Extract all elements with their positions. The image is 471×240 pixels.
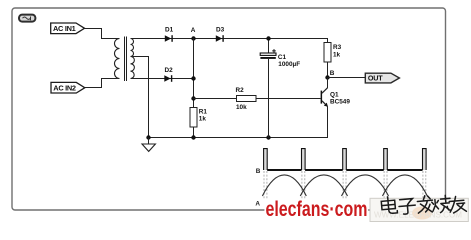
- resistor R3: [324, 43, 342, 63]
- svg-text:10k: 10k: [236, 104, 247, 111]
- diode D3: [216, 27, 225, 42]
- transistor Q1: [321, 78, 351, 107]
- resistor R2: [236, 87, 257, 111]
- logo badge top-left: [19, 15, 35, 22]
- resistor R1: [190, 108, 207, 128]
- waveform A rectified sine humps: [262, 175, 427, 196]
- svg-text:1k: 1k: [333, 51, 341, 58]
- wire node A down to R1: [193, 39, 195, 108]
- wire secondary center tap to ground column: [131, 57, 149, 138]
- wire bottom rail: [149, 107, 328, 138]
- wire R3 bottom to node B: [327, 62, 329, 78]
- svg-text:R3: R3: [333, 44, 342, 51]
- svg-text:D2: D2: [165, 67, 174, 74]
- svg-text:R1: R1: [199, 108, 208, 115]
- junction dot ground: [146, 135, 150, 139]
- svg-text:BC549: BC549: [330, 99, 350, 106]
- wire node B to OUT tag: [328, 77, 366, 79]
- wire AC IN1 to transformer primary top: [85, 29, 120, 39]
- watermark chinese 发: [417, 195, 434, 213]
- svg-text:R2: R2: [236, 87, 245, 94]
- tag OUT: [365, 73, 399, 83]
- waveform plot labels: [255, 168, 260, 208]
- svg-text:B: B: [256, 168, 261, 175]
- svg-text:OUT: OUT: [368, 74, 383, 83]
- svg-text:AC IN1: AC IN1: [53, 24, 76, 33]
- waveform B level line: [267, 169, 422, 171]
- wire secondary bottom to D2 and node A column: [131, 78, 194, 80]
- svg-text:A: A: [191, 27, 196, 34]
- svg-text:1000µF: 1000µF: [278, 61, 300, 68]
- ground: [142, 138, 155, 152]
- wire AC IN2 to transformer primary bottom: [85, 79, 120, 88]
- diode D2: [164, 67, 173, 82]
- watermark chinese 子: [398, 198, 415, 214]
- wire top rail secondary to R3: [131, 39, 328, 43]
- diode D1: [165, 27, 174, 42]
- watermark box bottom right: [370, 198, 468, 221]
- waveform B trace pulses: [264, 149, 427, 170]
- transformer T1 secondary winding: [131, 39, 135, 79]
- junction dot C1 top: [266, 36, 270, 40]
- tag AC IN1: [51, 23, 85, 34]
- svg-text:WWW.ELECFANS.COM: WWW.ELECFANS.COM: [374, 210, 462, 220]
- svg-text:elecfans·com: elecfans·com: [266, 198, 368, 221]
- watermark red elecfans.com: [266, 198, 368, 221]
- svg-text:B: B: [330, 70, 335, 77]
- node B junction dot: [325, 75, 329, 79]
- svg-text:1k: 1k: [199, 116, 207, 123]
- junction dot R2 row: [191, 96, 195, 100]
- wire R2 row from node A column to Q1 base: [194, 98, 321, 100]
- watermark chinese 友: [449, 196, 467, 214]
- waveform hatched zero-cross bands: [264, 171, 426, 199]
- junction dot R1 bottom: [191, 135, 195, 139]
- transformer T1 core: [125, 37, 127, 82]
- svg-text:AC IN2: AC IN2: [53, 84, 76, 93]
- watermark chinese 烧: [431, 195, 451, 213]
- svg-text:D3: D3: [216, 27, 225, 34]
- junction dot D2 row: [191, 76, 195, 80]
- svg-text:D1: D1: [165, 27, 174, 34]
- svg-text:A: A: [255, 201, 260, 208]
- svg-text:Q1: Q1: [330, 92, 339, 99]
- wire R1 bottom to rail: [193, 127, 195, 138]
- schematic frame border: [12, 8, 446, 210]
- node A junction dot: [191, 36, 195, 40]
- svg-text:C1: C1: [278, 54, 287, 61]
- tag AC IN2: [51, 82, 85, 93]
- capacitor C1: [260, 39, 300, 138]
- junction dot C1 bottom: [266, 135, 270, 139]
- watermark chinese 电: [381, 196, 398, 214]
- transformer T1 primary winding: [114, 39, 119, 79]
